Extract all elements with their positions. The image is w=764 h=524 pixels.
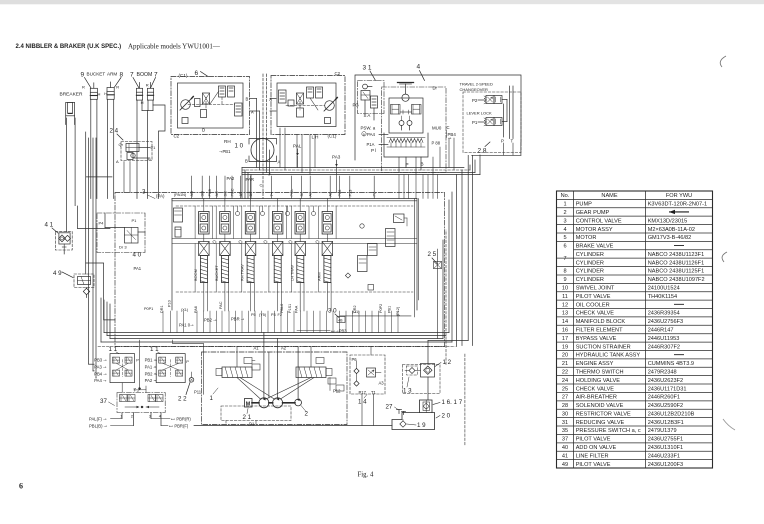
- RH motor valves: [174, 86, 243, 139]
- svg-text:CYLINDER: CYLINDER: [576, 260, 604, 266]
- air breather 27: [386, 404, 406, 415]
- oil cooler 12: [421, 359, 452, 377]
- valve block top rail: [172, 198, 417, 200]
- svg-text:25: 25: [562, 386, 568, 392]
- svg-text:PBL(B) ⊸: PBL(B) ⊸: [89, 423, 108, 428]
- svg-text:1 1: 1 1: [109, 346, 118, 353]
- svg-text:⊷ PBR(F): ⊷ PBR(F): [169, 423, 189, 428]
- relief valve left: [174, 208, 183, 237]
- svg-text:TRAVEL 2-SPEED: TRAVEL 2-SPEED: [460, 82, 493, 87]
- svg-text:RESTRICTOR VALVE: RESTRICTOR VALVE: [576, 411, 631, 417]
- svg-text:PB2 ⊸: PB2 ⊸: [204, 318, 217, 323]
- svg-text:NABCO 2438U1123F1: NABCO 2438U1123F1: [648, 252, 705, 258]
- svg-text:2446R307F2: 2446R307F2: [648, 344, 680, 350]
- svg-text:3 0: 3 0: [328, 308, 337, 315]
- arm cylinder 8: [104, 82, 119, 99]
- svg-text:1 9: 1 9: [417, 422, 426, 429]
- svg-text:C2: C2: [335, 71, 341, 76]
- main pump circles: [252, 398, 295, 408]
- add-on valve 40: [97, 213, 145, 259]
- bucket cylinder 9: [82, 83, 101, 100]
- svg-text:MANIFOLD BLOCK: MANIFOLD BLOCK: [576, 319, 626, 325]
- svg-text:HYDRAULIC TANK ASSY: HYDRAULIC TANK ASSY: [576, 353, 641, 359]
- svg-text:1 6. 1 7: 1 6. 1 7: [442, 399, 463, 406]
- svg-text:2 4: 2 4: [110, 128, 119, 135]
- svg-text:(C1): (C1): [179, 73, 188, 78]
- svg-text:LEVER LOCK: LEVER LOCK: [467, 111, 492, 116]
- port labels bottom: [144, 300, 400, 327]
- check valves row: [213, 206, 320, 244]
- pilot bus lines: [242, 128, 480, 199]
- svg-text:4 0: 4 0: [133, 252, 142, 259]
- svg-text:2436R39354: 2436R39354: [648, 311, 680, 317]
- svg-text:1: 1: [210, 395, 214, 402]
- svg-text:24: 24: [562, 378, 568, 384]
- svg-text:M2×63A0B-11A-02: M2×63A0B-11A-02: [648, 227, 695, 233]
- svg-text:7: 7: [563, 256, 566, 262]
- svg-text:NAME: NAME: [601, 193, 617, 199]
- svg-text:KMX13D/23015: KMX13D/23015: [648, 218, 688, 224]
- svg-text:2436U1171D31: 2436U1171D31: [648, 386, 687, 392]
- svg-text:PA4 ⊸: PA4 ⊸: [94, 378, 107, 383]
- svg-text:BOOM: BOOM: [193, 269, 198, 281]
- hydraulic tank 20: [392, 413, 451, 430]
- svg-text:3: 3: [563, 218, 566, 224]
- svg-text:SOLENOID VALVE: SOLENOID VALVE: [576, 403, 624, 409]
- svg-text:PAR: PAR: [246, 177, 255, 182]
- svg-text:40: 40: [562, 445, 568, 451]
- svg-text:R: R: [146, 82, 149, 87]
- svg-text:(PA1N): (PA1N): [174, 193, 187, 197]
- svg-text:P1: P1: [132, 218, 138, 223]
- svg-text:2446U11953: 2446U11953: [648, 336, 680, 342]
- svg-text:CUMMINS 4BT3.9: CUMMINS 4BT3.9: [648, 361, 694, 367]
- svg-text:P11: P11: [194, 390, 202, 395]
- svg-text:PA4: PA4: [367, 132, 376, 137]
- line filter 41: [45, 222, 73, 251]
- svg-text:CYLINDER: CYLINDER: [576, 269, 604, 275]
- svg-text:No.: No.: [561, 193, 570, 199]
- svg-text:41: 41: [562, 453, 568, 459]
- svg-text:2 0: 2 0: [442, 413, 451, 420]
- wire boom lines: [137, 100, 165, 198]
- svg-text:P3: P3: [271, 313, 276, 317]
- svg-text:C: C: [260, 183, 263, 188]
- relief valve right: [340, 199, 438, 339]
- pilot valve 11 left: [110, 354, 135, 383]
- spool section LH TRAV: [289, 199, 309, 312]
- svg-text:A3: A3: [379, 381, 385, 386]
- svg-text:B: B: [246, 97, 249, 102]
- svg-text:P10: P10: [168, 300, 172, 307]
- svg-text:2436U12B2D210B: 2436U12B2D210B: [648, 411, 695, 417]
- spool section aux: [269, 199, 287, 312]
- svg-text:PRESSURE SWITCH a, c: PRESSURE SWITCH a, c: [576, 428, 641, 434]
- outer pilot box: [355, 75, 521, 160]
- svg-text:1 3: 1 3: [403, 388, 412, 395]
- svg-text:OIL COOLER: OIL COOLER: [576, 302, 610, 308]
- svg-text:(X1): (X1): [181, 308, 189, 312]
- svg-text:10: 10: [562, 286, 568, 292]
- svg-text:PA3 ⊸: PA3 ⊸: [94, 364, 107, 369]
- svg-text:A: A: [251, 110, 254, 115]
- svg-text:Dr: Dr: [433, 86, 438, 91]
- svg-text:P3: P3: [134, 388, 140, 393]
- svg-text:MOTOR ASSY: MOTOR ASSY: [576, 227, 613, 233]
- filter 16 17: [420, 399, 463, 413]
- thermo switch 22: [178, 372, 194, 403]
- svg-text:2446U233F1: 2446U233F1: [648, 453, 680, 459]
- LH travel motor box C1: [271, 71, 345, 140]
- restrictor valve 30: [328, 308, 345, 323]
- svg-text:MOTOR: MOTOR: [576, 235, 597, 241]
- svg-text:PAL: PAL: [293, 144, 302, 149]
- svg-text:2 1: 2 1: [243, 414, 252, 421]
- svg-text:2436U2755F1: 2436U2755F1: [648, 437, 683, 443]
- svg-text:37: 37: [562, 437, 568, 443]
- reducing valve 31: [353, 81, 385, 121]
- svg-text:ADD ON VALVE: ADD ON VALVE: [576, 445, 617, 451]
- svg-text:9: 9: [81, 72, 85, 79]
- PB3 line: [297, 329, 347, 334]
- svg-text:S A: S A: [364, 113, 371, 118]
- engine M 21: [243, 399, 256, 427]
- svg-text:13: 13: [562, 311, 568, 317]
- svg-text:BOOM: BOOM: [137, 72, 153, 78]
- svg-text:CHANGEOVER: CHANGEOVER: [460, 87, 489, 92]
- main pump box: [194, 352, 347, 425]
- svg-text:14: 14: [562, 319, 568, 325]
- svg-text:NABCO 2438U1125F1: NABCO 2438U1125F1: [648, 269, 705, 275]
- parts table: [557, 191, 713, 468]
- svg-text:2 5: 2 5: [428, 251, 437, 258]
- svg-text:9: 9: [563, 277, 566, 283]
- tank feed lines: [194, 377, 428, 426]
- control valve boundary box 3: [115, 189, 445, 347]
- wire breaker lines: [64, 118, 115, 320]
- svg-text:2479R2348: 2479R2348: [648, 369, 677, 375]
- svg-text:PAA: PAA: [295, 305, 299, 313]
- svg-text:PILOT VALVE: PILOT VALVE: [576, 462, 611, 468]
- svg-text:HOLDING VALVE: HOLDING VALVE: [576, 378, 621, 384]
- spool section RH TRAV: [240, 199, 260, 312]
- svg-text:4B: 4B: [338, 318, 343, 322]
- label 7 BOOM 7: [130, 72, 158, 89]
- svg-text:Fig. 4: Fig. 4: [358, 471, 374, 478]
- svg-text:3 1: 3 1: [363, 65, 372, 72]
- holding valve 24: [110, 128, 157, 193]
- svg-text:6: 6: [195, 70, 199, 77]
- pump delivery lines: [237, 333, 311, 400]
- svg-text:P2: P2: [472, 98, 478, 103]
- svg-text:P1: P1: [151, 145, 157, 150]
- check valve 13: [403, 365, 441, 395]
- svg-text:P0P2: P0P2: [379, 304, 383, 313]
- svg-text:P: P: [186, 359, 189, 364]
- svg-text:BUCKET: BUCKET: [214, 265, 219, 281]
- svg-text:20: 20: [562, 353, 568, 359]
- add-on valve 49: [53, 270, 94, 298]
- svg-text:K3V63DT-120R-2N07-1: K3V63DT-120R-2N07-1: [648, 202, 707, 208]
- svg-text:8: 8: [120, 72, 124, 79]
- svg-text:7: 7: [130, 72, 134, 79]
- svg-text:16: 16: [562, 328, 568, 334]
- svg-text:BRAKE VALVE: BRAKE VALVE: [576, 244, 614, 250]
- svg-text:NABCO 2438U1097F2: NABCO 2438U1097F2: [648, 277, 705, 283]
- svg-text:a: a: [363, 132, 365, 136]
- svg-text:P 88: P 88: [432, 140, 441, 145]
- svg-text:12: 12: [562, 302, 568, 308]
- svg-text:PA1 0⊸: PA1 0⊸: [179, 323, 194, 328]
- svg-text:CHECK VALVE: CHECK VALVE: [576, 386, 615, 392]
- svg-text:⊸: ⊸: [448, 136, 452, 141]
- svg-text:SUCTION STRAINER: SUCTION STRAINER: [576, 344, 631, 350]
- svg-text:CYLINDER: CYLINDER: [576, 252, 604, 258]
- svg-text:ARM: ARM: [107, 72, 117, 77]
- boom cylinder 7 left: [136, 83, 142, 101]
- svg-text:2436U2590F2: 2436U2590F2: [648, 403, 683, 409]
- label 28: [478, 139, 514, 155]
- svg-text:CONTROL VALVE: CONTROL VALVE: [576, 218, 622, 224]
- svg-text:D: D: [202, 128, 205, 133]
- svg-text:⊸PB1: ⊸PB1: [219, 149, 231, 154]
- pilot port labels right: [145, 358, 158, 384]
- swivel joint 10: [219, 139, 281, 199]
- svg-text:A2: A2: [281, 346, 287, 351]
- svg-text:(Y5): (Y5): [259, 313, 267, 317]
- pilot bottom port labels: [89, 416, 191, 428]
- svg-text:PILOT VALVE: PILOT VALVE: [576, 294, 611, 300]
- svg-text:BREAKER: BREAKER: [60, 91, 83, 97]
- svg-text:2436U1310F1: 2436U1310F1: [648, 445, 683, 451]
- pilot labels MU0 PB4: [432, 125, 457, 145]
- svg-text:7: 7: [154, 72, 158, 79]
- svg-text:A1: A1: [254, 346, 260, 351]
- svg-text:PA3: PA3: [332, 155, 341, 160]
- pump regulator left: [216, 358, 260, 378]
- svg-text:⊷ PBR(R): ⊷ PBR(R): [171, 416, 191, 421]
- wire left long lines: [86, 132, 97, 378]
- pump diagonals: [237, 378, 314, 400]
- svg-text:ENGINE ASSY: ENGINE ASSY: [576, 361, 614, 367]
- PAL arrow: [293, 144, 302, 156]
- svg-text:P1S1: P1S1: [288, 304, 292, 313]
- svg-text:11: 11: [562, 294, 568, 300]
- svg-text:30: 30: [562, 411, 568, 417]
- svg-text:MU0: MU0: [432, 126, 442, 131]
- svg-text:28: 28: [562, 403, 568, 409]
- svg-text:6: 6: [563, 244, 566, 250]
- svg-text:RH TRAV: RH TRAV: [240, 264, 245, 281]
- svg-text:P0P1: P0P1: [144, 307, 153, 311]
- svg-text:24100U1524: 24100U1524: [648, 286, 680, 292]
- svg-text:27: 27: [562, 395, 568, 401]
- svg-text:2: 2: [563, 210, 566, 216]
- svg-text:PILOT VALVE: PILOT VALVE: [576, 437, 611, 443]
- svg-text:PUMP: PUMP: [576, 202, 592, 208]
- label 31: [363, 65, 376, 81]
- svg-text:(PA): (PA): [156, 194, 165, 199]
- svg-text:M: M: [246, 401, 251, 407]
- pilot valve 11 right: [156, 354, 185, 383]
- svg-text:GM17V3-B-46/82: GM17V3-B-46/82: [648, 235, 692, 241]
- svg-text:4: 4: [563, 227, 566, 233]
- svg-text:PBR ⊸: PBR ⊸: [231, 317, 245, 322]
- svg-text:THERMO SWITCH: THERMO SWITCH: [576, 369, 624, 375]
- pilot port labels left: [94, 358, 107, 384]
- svg-text:LH TRAV: LH TRAV: [289, 265, 294, 281]
- svg-text:LINE FILTER: LINE FILTER: [576, 453, 609, 459]
- label 4: [417, 64, 425, 81]
- svg-text:1 0: 1 0: [235, 143, 244, 150]
- wire pilot centre feed: [134, 340, 147, 392]
- svg-text:49: 49: [562, 462, 568, 468]
- wire P11 feed: [173, 340, 204, 394]
- svg-text:SWIVEL JOINT: SWIVEL JOINT: [576, 286, 615, 292]
- lower bus lines: [98, 192, 455, 365]
- svg-text:P17: P17: [359, 390, 367, 395]
- scan marks: [720, 56, 726, 67]
- svg-text:P1: P1: [472, 120, 478, 125]
- svg-text:REDUCING VALVE: REDUCING VALVE: [576, 420, 625, 426]
- RH travel motor box C1: [171, 70, 250, 135]
- wire arm lines: [107, 99, 109, 198]
- svg-text:PSW. a: PSW. a: [361, 126, 376, 131]
- svg-text:3: 3: [142, 189, 146, 196]
- svg-text:CYLINDER: CYLINDER: [576, 277, 604, 283]
- label 9 BUCKET ARM 8: [81, 72, 124, 89]
- svg-text:PG: PG: [353, 103, 360, 108]
- svg-text:19: 19: [562, 344, 568, 350]
- wires lever lock: [463, 86, 521, 155]
- svg-text:2436U2623F2: 2436U2623F2: [648, 378, 683, 384]
- spool section BOOM: [193, 199, 213, 312]
- svg-text:C2: C2: [174, 134, 180, 139]
- svg-text:AIR-BREATHER: AIR-BREATHER: [576, 395, 617, 401]
- wire travel A B lines: [246, 74, 277, 139]
- scan edge bar: [0, 0, 764, 4]
- svg-text:37: 37: [100, 398, 107, 405]
- svg-text:2.4 NIBBLER & BRAKER (U.K: 2.4 NIBBLER & BRAKER (U.K SPEC.): [16, 44, 122, 50]
- svg-text:6: 6: [19, 482, 23, 491]
- svg-text:CHECK VALVE: CHECK VALVE: [576, 311, 615, 317]
- port labels top: [189, 172, 377, 198]
- svg-text:DR2: DR2: [353, 305, 357, 313]
- svg-text:R: R: [82, 85, 85, 90]
- svg-text:GEAR PUMP: GEAR PUMP: [576, 210, 610, 216]
- svg-text:PB3 ⊸: PB3 ⊸: [94, 358, 107, 363]
- svg-text:5: 5: [563, 235, 566, 241]
- svg-text:(C1): (C1): [328, 134, 337, 139]
- spool section ARM: [317, 199, 337, 312]
- svg-text:22: 22: [562, 369, 568, 375]
- travel pilot valve assembly: [89, 82, 521, 447]
- svg-text:PA2: PA2: [227, 176, 235, 181]
- motor LH: [324, 98, 337, 112]
- svg-text:2436U12B3F1: 2436U12B3F1: [648, 420, 684, 426]
- svg-text:2436U2756F3: 2436U2756F3: [648, 319, 683, 325]
- svg-text:ARM: ARM: [317, 272, 322, 281]
- svg-text:P: P: [136, 358, 139, 363]
- suction strainer 19: [400, 420, 426, 430]
- svg-text:PB1: PB1: [388, 306, 392, 313]
- svg-text:PBL0: PBL0: [280, 304, 284, 313]
- svg-text:TH40K1154: TH40K1154: [648, 294, 677, 300]
- svg-text:RH: RH: [224, 139, 231, 144]
- svg-text:4 9: 4 9: [53, 270, 62, 277]
- wire bucket lines: [90, 99, 92, 198]
- svg-text:PA6: PA6: [194, 306, 198, 313]
- svg-text:FILTER ELEMENT: FILTER ELEMENT: [576, 328, 623, 334]
- svg-text:PAL(F) ⊸: PAL(F) ⊸: [89, 416, 107, 421]
- spool section BUCKET: [214, 199, 234, 312]
- pilot labels PSW PA4: [361, 126, 389, 154]
- svg-text:P12: P12: [333, 389, 341, 394]
- svg-text:P l: P l: [371, 148, 376, 153]
- svg-text:2 8: 2 8: [478, 148, 487, 155]
- LH motor valves: [279, 87, 331, 124]
- svg-text:P4: P4: [99, 221, 105, 226]
- svg-text:P1A: P1A: [367, 142, 375, 147]
- svg-text:B: B: [245, 159, 248, 164]
- svg-text:2436U1200F3: 2436U1200F3: [648, 462, 683, 468]
- gear pump 2: [295, 399, 309, 418]
- manifold block 14: [350, 347, 385, 426]
- boom cylinder 7 right: [141, 82, 154, 105]
- svg-text:21: 21: [562, 361, 568, 367]
- svg-text:35: 35: [562, 428, 568, 434]
- valve block rails: [172, 206, 417, 292]
- svg-text:R: R: [116, 85, 119, 90]
- svg-text:NABCO 2438U1126F1: NABCO 2438U1126F1: [648, 260, 705, 266]
- svg-text:2446R147: 2446R147: [648, 328, 674, 334]
- PA3 arrow: [332, 155, 341, 167]
- svg-text:Applicable models YWU1001—: Applicable models YWU1001—: [128, 43, 221, 51]
- pilot P B ports: [406, 157, 424, 170]
- travel 2-speed changeover valve P2: [460, 82, 508, 104]
- svg-text:PA1: PA1: [134, 266, 142, 271]
- svg-text:31: 31: [562, 420, 568, 426]
- check valve 25: [428, 251, 442, 269]
- breaker cylinder: [66, 102, 75, 124]
- svg-text:PAC: PAC: [219, 301, 223, 309]
- wire right drop lines: [428, 143, 521, 447]
- svg-text:BUCKET: BUCKET: [87, 72, 106, 77]
- svg-text:8: 8: [563, 269, 566, 275]
- svg-text:FOR YWU: FOR YWU: [666, 193, 692, 199]
- lever lock valve P1: [467, 111, 508, 126]
- block-to-bus verticals: [163, 311, 398, 333]
- svg-text:A: A: [116, 159, 119, 164]
- svg-text:C: C: [447, 125, 450, 130]
- svg-text:4: 4: [417, 64, 421, 71]
- pump drain dashed box: [221, 406, 291, 425]
- svg-text:4 1: 4 1: [45, 222, 54, 229]
- svg-text:2479U1379: 2479U1379: [648, 428, 677, 434]
- svg-text:2: 2: [305, 411, 309, 418]
- svg-text:1 4: 1 4: [358, 399, 367, 406]
- svg-text:PB4 ⊸: PB4 ⊸: [94, 371, 107, 376]
- svg-text:1 1: 1 1: [150, 346, 159, 353]
- svg-text:2446R260F1: 2446R260F1: [648, 395, 680, 401]
- pump regulator right: [296, 358, 344, 392]
- svg-text:1 2: 1 2: [443, 359, 452, 366]
- svg-text:2 2: 2 2: [178, 396, 187, 403]
- svg-text:27: 27: [386, 404, 393, 411]
- svg-text:DR1: DR1: [160, 305, 164, 313]
- svg-text:17: 17: [562, 336, 568, 342]
- motor RH: [180, 97, 193, 111]
